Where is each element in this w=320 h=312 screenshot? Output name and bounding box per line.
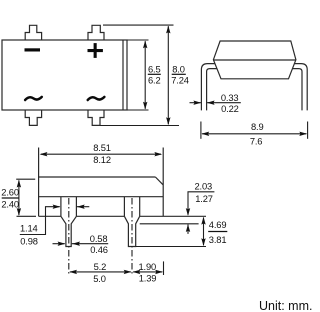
dim line 2.60/2.40: [18, 180, 20, 215]
ext line 2.03 lower (taper bottom): [140, 223, 199, 225]
arrowhead 0.58 left: [58, 242, 66, 246]
ext line right of 1.90 dim: [163, 261, 165, 275]
svg-text:0.58: 0.58: [90, 234, 108, 244]
arrow shaft and fraction bar 0.58/0.46: [72, 243, 109, 245]
arrowhead 6.5 bottom: [143, 102, 147, 110]
arrowhead 0.58 right: [72, 242, 80, 246]
dim line 5.2/5.0: [70, 271, 131, 273]
svg-text:8.12: 8.12: [93, 155, 111, 165]
arrowhead 4.69 bottom: [201, 238, 205, 246]
arrowhead 6.5 top: [143, 41, 147, 49]
arrowhead 4.69 top: [201, 217, 205, 225]
dim line 8.9/7.6: [202, 133, 306, 135]
svg-text:5.2: 5.2: [94, 262, 107, 272]
arrow shaft 2.03 up-arrow: [187, 224, 189, 234]
leader 2.03/1.27 fraction bar and arrow line: [188, 192, 214, 215]
svg-text:1.14: 1.14: [20, 223, 38, 233]
arrowhead 8.0 top: [166, 26, 170, 34]
svg-text:2.60: 2.60: [1, 187, 19, 197]
side view left lead outer: [201, 64, 215, 111]
dim line 8.0/7.24: [167, 26, 169, 124]
arrowhead 1.90 right: [155, 270, 163, 274]
tilde symbol 1: [25, 97, 42, 100]
svg-text:6.2: 6.2: [148, 76, 161, 86]
fraction bar 2.60/2.40: [2, 197, 19, 199]
svg-text:0.33: 0.33: [221, 93, 239, 103]
arrowhead 2.60 top: [17, 180, 21, 188]
bottom view chamfer: [155, 177, 163, 185]
top view upper pin 1: [25, 25, 41, 40]
centerline pin 1: [68, 198, 70, 274]
svg-text:2.03: 2.03: [195, 182, 213, 192]
arrowhead 0.33 right: [207, 101, 215, 105]
arrowhead 8.0 bottom: [166, 117, 170, 125]
dim line 1.90/1.39: [133, 271, 162, 273]
arrow shaft 0.33 left: [190, 102, 201, 104]
svg-text:1.27: 1.27: [195, 194, 213, 204]
bottom view top edge: [39, 176, 156, 178]
arrowhead 8.51 right: [154, 152, 162, 156]
centerline pin 2: [131, 198, 133, 274]
plus symbol horizontal bar: [88, 49, 103, 52]
ext line top of 8.0 dim: [103, 24, 174, 26]
ext line top of 2.60 dim: [16, 178, 35, 180]
arrowhead 8.9 right: [299, 132, 307, 136]
arrowhead 5.2 left: [69, 270, 77, 274]
top view lower pin 1: [25, 110, 41, 125]
top view lower pin 2: [88, 110, 104, 125]
bottom view bottom edge segment left: [39, 215, 61, 217]
tilde symbol 2: [88, 97, 105, 100]
bottom view mid line: [39, 196, 164, 198]
svg-text:6.5: 6.5: [148, 65, 161, 75]
ext line bottom of 6.5 dim: [127, 109, 149, 111]
bottom view left edge: [38, 148, 40, 217]
side view right lead outer: [294, 64, 307, 111]
top view inner edge line: [122, 40, 124, 110]
side view body mid line: [213, 59, 296, 61]
dim line 6.5/6.2: [144, 41, 146, 109]
arrowhead 2.60 bottom: [17, 208, 21, 216]
bottom view right edge: [162, 148, 164, 217]
arrow shaft 1.14 right: [76, 206, 89, 208]
svg-text:8.51: 8.51: [93, 143, 111, 153]
ext line bottom of 2.60 dim: [17, 215, 37, 217]
ext line top of 6.5 dim: [127, 39, 149, 41]
bottom view pin 1 wide part: [61, 197, 77, 217]
svg-text:8.9: 8.9: [251, 122, 264, 132]
arrow shaft 0.58 left: [53, 243, 65, 245]
arrowhead 8.9 left: [201, 132, 209, 136]
minus symbol: [25, 48, 41, 51]
bottom view pin 1 taper and lead: [61, 216, 77, 246]
bottom view bottom edge segment right + ext line for 2.03 and 4.69: [140, 215, 206, 217]
arrowhead 2.03 down: [186, 208, 190, 216]
dim line 8.51/8.12: [41, 153, 161, 155]
ext line bottom of 8.0 dim: [100, 125, 179, 127]
top view body: [2, 40, 127, 110]
dim line 4.69/3.81: [203, 218, 205, 246]
svg-text:0.46: 0.46: [90, 245, 108, 255]
svg-text:7.6: 7.6: [250, 136, 263, 146]
top view upper pin 2: [88, 25, 104, 40]
arrow shaft and fraction bar 0.33/0.22: [207, 102, 241, 104]
bottom view pin 2 taper and lead: [124, 216, 139, 246]
svg-text:8.0: 8.0: [172, 65, 185, 75]
ext line right of 8.9 dim: [307, 122, 309, 139]
arrowhead 1.14 left: [53, 205, 61, 209]
arrowhead 1.90 left: [133, 270, 141, 274]
fraction bar 8.0/7.24: [172, 73, 186, 75]
fraction bar 6.5/6.2: [148, 73, 161, 75]
side view body: [213, 41, 296, 79]
arrowhead 8.51 left: [40, 152, 48, 156]
svg-text:1.39: 1.39: [139, 273, 157, 283]
ext line left of 8.9 dim: [200, 122, 202, 139]
arrowhead 1.14 right: [77, 205, 85, 209]
side view left lead inner: [207, 69, 217, 111]
bottom view pin 2 wide part: [124, 197, 139, 217]
svg-text:1.90: 1.90: [139, 262, 157, 272]
fraction bar 4.69/3.81: [208, 231, 227, 233]
plus symbol vertical bar: [94, 43, 97, 58]
svg-text:0.22: 0.22: [221, 104, 239, 114]
svg-text:2.40: 2.40: [1, 199, 19, 209]
svg-text:3.81: 3.81: [209, 235, 227, 245]
svg-text:0.98: 0.98: [20, 236, 38, 246]
ext line bottom of 4.69 dim (pin tip): [136, 246, 206, 248]
arrowhead 0.33 left: [193, 101, 201, 105]
svg-text:5.0: 5.0: [93, 274, 106, 284]
svg-text:Unit: mm.: Unit: mm.: [259, 299, 312, 312]
arrowhead 2.03 up: [186, 224, 190, 232]
bottom view bottom edge segment middle: [76, 215, 124, 217]
arrowhead 5.2 right: [124, 270, 132, 274]
svg-text:4.69: 4.69: [209, 220, 227, 230]
leader 1.14/0.98 with fraction bar: [20, 207, 60, 235]
svg-text:7.24: 7.24: [171, 76, 189, 86]
side view right lead inner: [292, 69, 302, 111]
